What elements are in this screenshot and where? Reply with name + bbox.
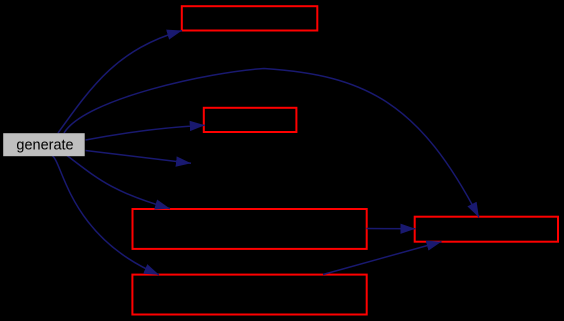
wire: generate to bottom box	[52, 156, 159, 275]
wire: generate to large middle box	[67, 156, 170, 209]
node: generate	[3, 133, 85, 156]
node: large middle box	[133, 209, 367, 249]
svg-text:generate: generate	[16, 138, 73, 154]
node: top box	[182, 6, 317, 30]
wire: generate to top box	[58, 31, 182, 134]
wire: generate to middle box	[86, 125, 205, 140]
wire: bottom box to right box	[323, 242, 442, 275]
wire: generate long curve to right box	[64, 69, 479, 218]
node: right box	[415, 217, 558, 242]
node: middle small box	[204, 108, 297, 132]
wire: generate short arrow	[86, 151, 192, 164]
node: bottom box	[132, 275, 366, 315]
wire: large middle box to right box	[367, 228, 416, 230]
